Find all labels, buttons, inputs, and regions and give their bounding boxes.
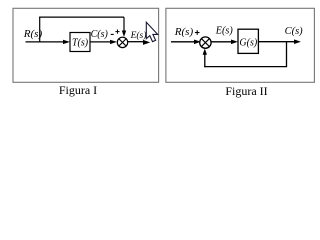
wire E(s) output [128,41,144,43]
plus sign on R(s) input [195,30,200,35]
block G(s) [238,29,258,53]
minus sign on C(s) input [111,33,114,35]
summing junction S2 [200,37,211,48]
wire R(s) input to T(s) [26,41,64,43]
wire branch up from R(s) node [39,17,41,42]
wire feedback bottom [204,66,287,68]
svg-text:C(s): C(s) [91,29,109,40]
svg-text:Figura II: Figura II [225,84,267,98]
svg-text:E(s): E(s) [215,25,234,36]
frame Figura II [166,8,315,82]
wire feedback branch down [286,42,288,67]
block T(s) [70,33,90,52]
mouse cursor icon [146,22,157,41]
wire down into summing junction [123,17,125,31]
svg-text:C(s): C(s) [285,26,304,37]
wire feedback up into summing junction [204,54,206,67]
wire T(s) to summing junction [90,41,111,43]
svg-text:Figura I: Figura I [59,83,97,97]
svg-text:G(s): G(s) [239,37,257,48]
svg-text:R(s): R(s) [174,26,194,38]
svg-text:T(s): T(s) [72,38,89,49]
wire R(s) input to summing junction [171,41,195,43]
wire C(s) output [259,41,295,43]
plus sign on top input [115,30,119,34]
summing junction S1 [117,37,127,47]
frame Figura I [13,8,159,82]
wire feedforward top [39,16,124,18]
wire E(s) to G(s) [211,41,231,43]
svg-text:E(s): E(s) [130,30,147,41]
